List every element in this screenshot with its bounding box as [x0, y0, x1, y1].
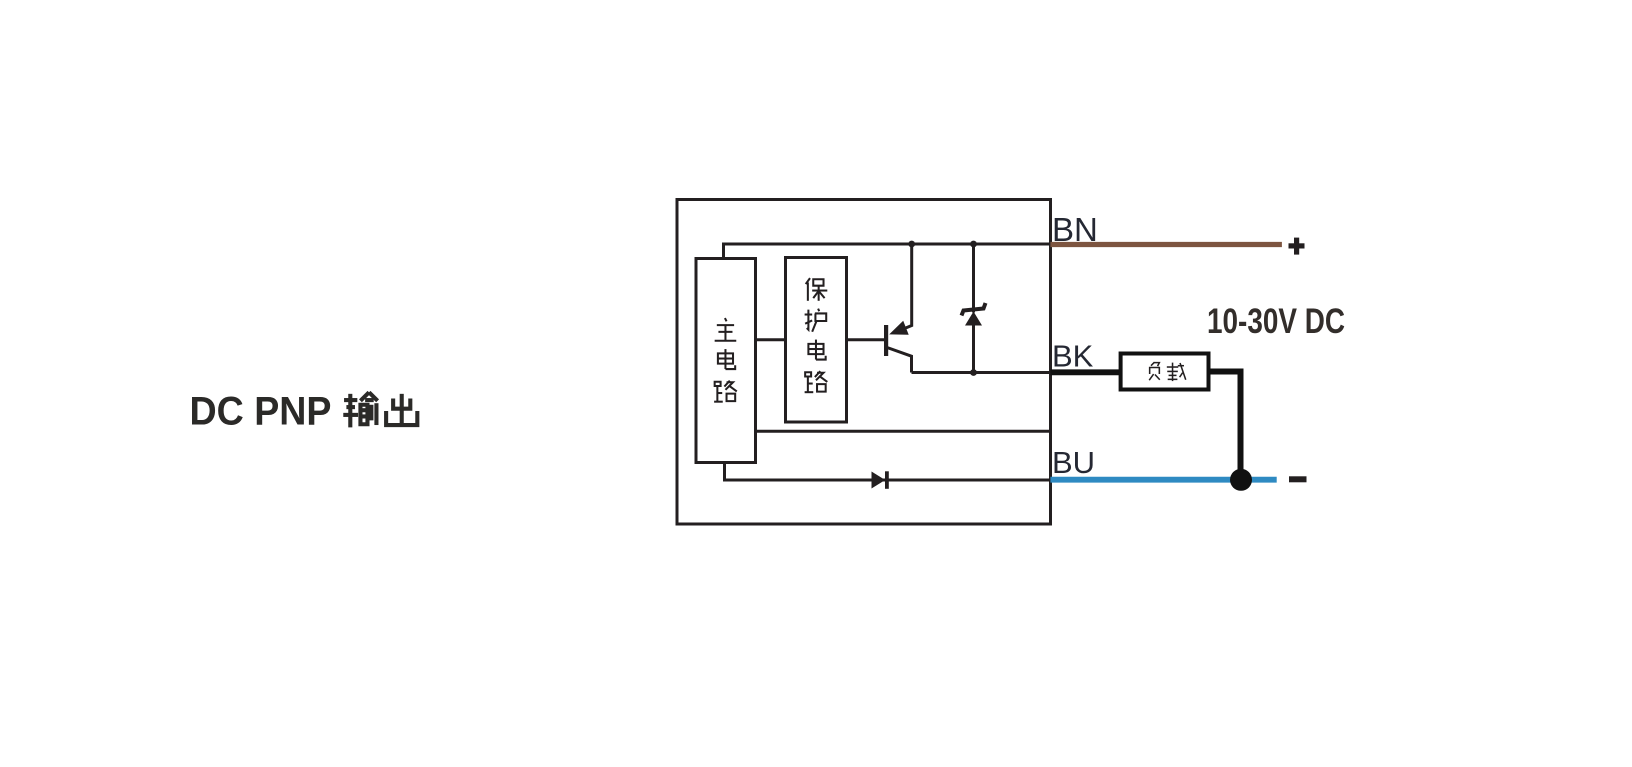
svg-text:10-30V DC: 10-30V DC: [1207, 302, 1345, 341]
wire: protection block to transistor base: [847, 338, 885, 341]
title hanzi: 出: [386, 394, 417, 426]
title hanzi: 输: [343, 392, 377, 427]
wire BK (black thick) to load: [1050, 369, 1122, 375]
wire: main block bottom to BU rail: [725, 463, 1051, 481]
node: zener / top rail junction: [970, 241, 977, 248]
protection circuit block 保护电路: [786, 258, 847, 423]
zener diode D2: [962, 244, 986, 373]
node: zener / collector rail junction: [970, 369, 977, 376]
main circuit block 主电路: [696, 259, 756, 463]
diode D1 on BU rail: [872, 471, 887, 489]
sensor outline box: [677, 200, 1051, 525]
plus terminal: [1289, 238, 1305, 255]
wire BN (brown): [1050, 242, 1282, 247]
wire: main block to protection block: [756, 338, 786, 341]
minus terminal: [1289, 476, 1307, 482]
wire: collector rail to box edge (BK): [912, 371, 1051, 374]
svg-text:DC PNP: DC PNP: [190, 390, 332, 434]
node: load / BU junction: [1230, 469, 1252, 491]
load box 负载: [1121, 354, 1209, 390]
svg-text:BK: BK: [1052, 339, 1094, 374]
node: emitter / top rail junction: [908, 241, 915, 248]
transistor Q1 (PNP): [884, 244, 912, 373]
svg-text:BU: BU: [1052, 445, 1095, 480]
wire: main block right side to box edge: [756, 430, 1051, 433]
wire: top supply rail with stub down to main block: [724, 244, 1051, 259]
wire: load to minus node: [1209, 372, 1241, 480]
wire BU (blue): [1050, 477, 1276, 483]
